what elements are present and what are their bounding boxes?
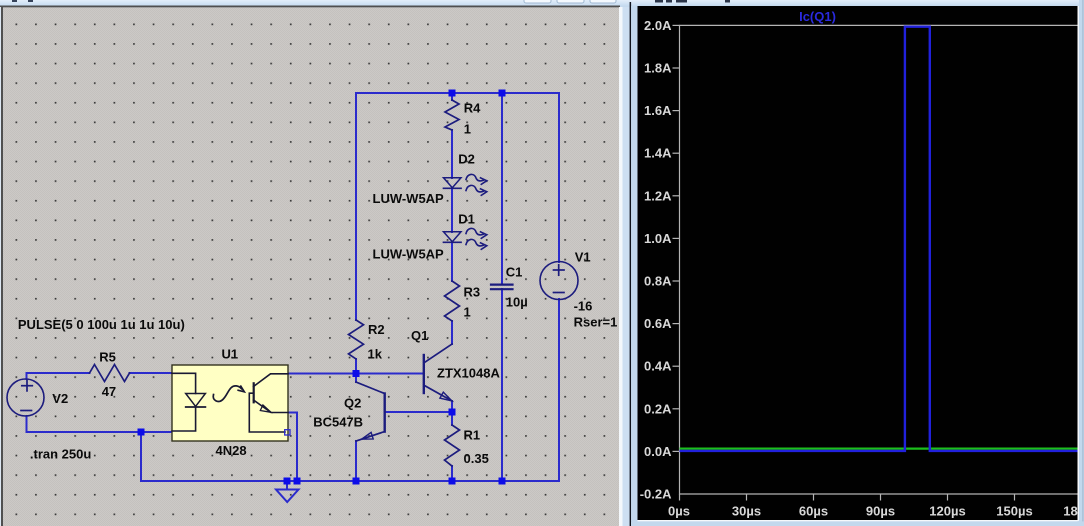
svg-text:.tran 250u: .tran 250u <box>30 447 91 462</box>
wire ground stub <box>286 481 288 489</box>
spice directive PULSE <box>18 317 185 332</box>
x tick 150us <box>996 494 1032 519</box>
wire left branch to R2 <box>355 93 357 320</box>
blue trace ic(Q1) <box>680 27 1078 451</box>
svg-text:1k: 1k <box>368 347 383 362</box>
wire Q2 base <box>385 411 452 413</box>
x tick 30us <box>732 494 761 519</box>
ground <box>276 490 299 503</box>
spice directive .tran <box>30 447 91 462</box>
svg-text:4N28: 4N28 <box>216 443 247 458</box>
svg-text:1.0A: 1.0A <box>644 231 672 246</box>
x tick 180us clipped <box>1063 504 1084 519</box>
resistor R2 <box>349 320 385 362</box>
junction C1 rail <box>499 478 506 485</box>
svg-text:R4: R4 <box>464 100 481 115</box>
wire D2 to D1 <box>451 188 453 232</box>
svg-text:R2: R2 <box>368 322 385 337</box>
wire V2 to R5 <box>27 373 90 379</box>
svg-text:0.8A: 0.8A <box>644 274 672 289</box>
capacitor C1 <box>491 264 528 309</box>
y tick 1.0A <box>644 231 679 246</box>
svg-text:0.6A: 0.6A <box>644 316 672 331</box>
svg-text:0µs: 0µs <box>668 504 690 519</box>
optocoupler U1 <box>172 347 290 458</box>
transistor Q2 <box>313 382 385 441</box>
schematic gray canvas <box>3 7 619 526</box>
svg-text:Q2: Q2 <box>344 395 361 410</box>
wire C1 top lead <box>501 93 503 284</box>
plot frame <box>680 25 1078 494</box>
junction top rail C1 <box>499 90 506 97</box>
schematic window left border <box>0 7 3 526</box>
svg-text:C1: C1 <box>506 264 523 279</box>
junction Q1 emitter node <box>449 409 456 416</box>
svg-text:1.6A: 1.6A <box>644 103 672 118</box>
y tick 1.4A <box>644 146 679 161</box>
junction R1 rail <box>449 478 456 485</box>
svg-text:-16: -16 <box>574 298 593 313</box>
svg-text:60µs: 60µs <box>799 504 828 519</box>
junction ground node <box>284 478 291 485</box>
y tick 2.0A <box>644 18 679 33</box>
svg-text:1: 1 <box>464 122 471 137</box>
svg-text:-0.2A: -0.2A <box>640 487 672 502</box>
waveform window left border <box>631 6 637 521</box>
svg-text:30µs: 30µs <box>732 504 761 519</box>
junction R2 base node <box>353 370 360 377</box>
y tick 1.2A <box>644 188 679 203</box>
y tick 0.8A <box>644 274 679 289</box>
wire U1 emitter to ground rail <box>288 413 297 482</box>
svg-text:R1: R1 <box>464 427 481 442</box>
svg-text:V2: V2 <box>52 391 68 406</box>
wire Q2 emitter to ground rail <box>355 441 357 481</box>
x tick 90us <box>866 494 895 519</box>
svg-text:1.4A: 1.4A <box>644 146 672 161</box>
wire D1 to R3 <box>451 243 453 281</box>
svg-text:47: 47 <box>102 384 116 399</box>
y tick -0.2A <box>640 487 672 502</box>
wire R1 top lead <box>451 412 453 425</box>
svg-text:ZTX1048A: ZTX1048A <box>437 365 500 380</box>
waveform title bar text marks <box>655 0 730 3</box>
wire R4 top lead <box>451 93 453 100</box>
resistor R3 <box>445 281 481 321</box>
svg-text:V1: V1 <box>575 249 591 264</box>
wire Q1 emitter to node <box>451 401 453 412</box>
wire R4 to D2 <box>451 130 453 178</box>
schematic window top border <box>0 6 620 8</box>
LED D1 <box>373 211 487 261</box>
wire R3 to Q1 collector <box>451 321 453 344</box>
wire C1 bottom lead <box>501 289 503 481</box>
voltage source V2 <box>7 379 68 416</box>
x tick 0us <box>668 494 690 519</box>
junction V2 bottom node <box>138 429 145 436</box>
waveform plot black background <box>638 6 1078 520</box>
svg-text:0.4A: 0.4A <box>644 359 672 374</box>
svg-text:0.2A: 0.2A <box>644 401 672 416</box>
wire V1 top branch <box>558 93 560 262</box>
svg-text:LUW-W5AP: LUW-W5AP <box>373 247 445 262</box>
junction top rail R4 <box>449 90 456 97</box>
svg-text:10µ: 10µ <box>506 294 528 309</box>
wire R1 bottom lead <box>451 466 453 481</box>
svg-text:U1: U1 <box>222 347 239 362</box>
svg-text:120µs: 120µs <box>929 504 965 519</box>
y tick 1.8A <box>644 61 679 76</box>
resistor R1 <box>445 425 489 466</box>
svg-text:D2: D2 <box>458 151 475 166</box>
svg-text:0.35: 0.35 <box>464 451 489 466</box>
wire R5 to U1 <box>130 372 173 374</box>
resistor R5 <box>90 350 130 400</box>
waveform window right border <box>1078 0 1084 526</box>
y tick 0.2A <box>644 401 679 416</box>
y tick 0.0A <box>644 444 679 459</box>
y tick 1.6A <box>644 103 679 118</box>
svg-text:D1: D1 <box>458 211 475 226</box>
resistor R4 <box>445 100 481 137</box>
svg-text:1.2A: 1.2A <box>644 188 672 203</box>
wire top rail <box>356 92 559 94</box>
svg-text:PULSE(5 0 100u 1u 1u 10u): PULSE(5 0 100u 1u 1u 10u) <box>18 317 185 332</box>
svg-text:90µs: 90µs <box>866 504 895 519</box>
junction Q2 emitter rail <box>353 478 360 485</box>
svg-text:1.8A: 1.8A <box>644 61 672 76</box>
x tick 60us <box>799 494 828 519</box>
svg-text:LUW-W5AP: LUW-W5AP <box>373 191 445 206</box>
svg-text:BC547B: BC547B <box>313 415 363 430</box>
svg-text:0.0A: 0.0A <box>644 444 672 459</box>
svg-text:Ic(Q1): Ic(Q1) <box>799 9 836 24</box>
svg-text:R5: R5 <box>99 350 116 365</box>
title bar icon marks <box>12 0 33 2</box>
wire V2 bottom to U1 cathode pin <box>27 416 173 432</box>
wire V1 bottom branch <box>141 299 559 481</box>
y tick 0.6A <box>644 316 679 331</box>
svg-text:Q1: Q1 <box>411 328 428 343</box>
title bar buttons <box>524 0 616 3</box>
divider: schematic right border <box>619 7 630 526</box>
svg-text:Rser=1: Rser=1 <box>574 314 618 329</box>
y tick 0.4A <box>644 359 679 374</box>
svg-text:R3: R3 <box>464 285 481 300</box>
LED D2 <box>373 151 487 206</box>
svg-text:1: 1 <box>464 304 471 319</box>
wire R2 bottom lead <box>355 359 357 374</box>
wire U1 to Q1 base <box>288 373 423 375</box>
waveform window bottom border <box>631 520 1084 526</box>
transistor Q1 <box>411 328 500 401</box>
svg-text:2.0A: 2.0A <box>644 18 672 33</box>
junction U1 emitter rail <box>294 478 301 485</box>
svg-text:150µs: 150µs <box>996 504 1032 519</box>
waveform window left edge line <box>630 2 632 526</box>
wire Q2 collector stub <box>355 374 357 382</box>
plot title ic(Q1) <box>799 9 836 24</box>
voltage source V1 <box>540 249 617 329</box>
x tick 120us <box>929 494 965 519</box>
wire junction drop to ground rail <box>140 432 142 481</box>
green trace base current <box>680 448 1078 450</box>
